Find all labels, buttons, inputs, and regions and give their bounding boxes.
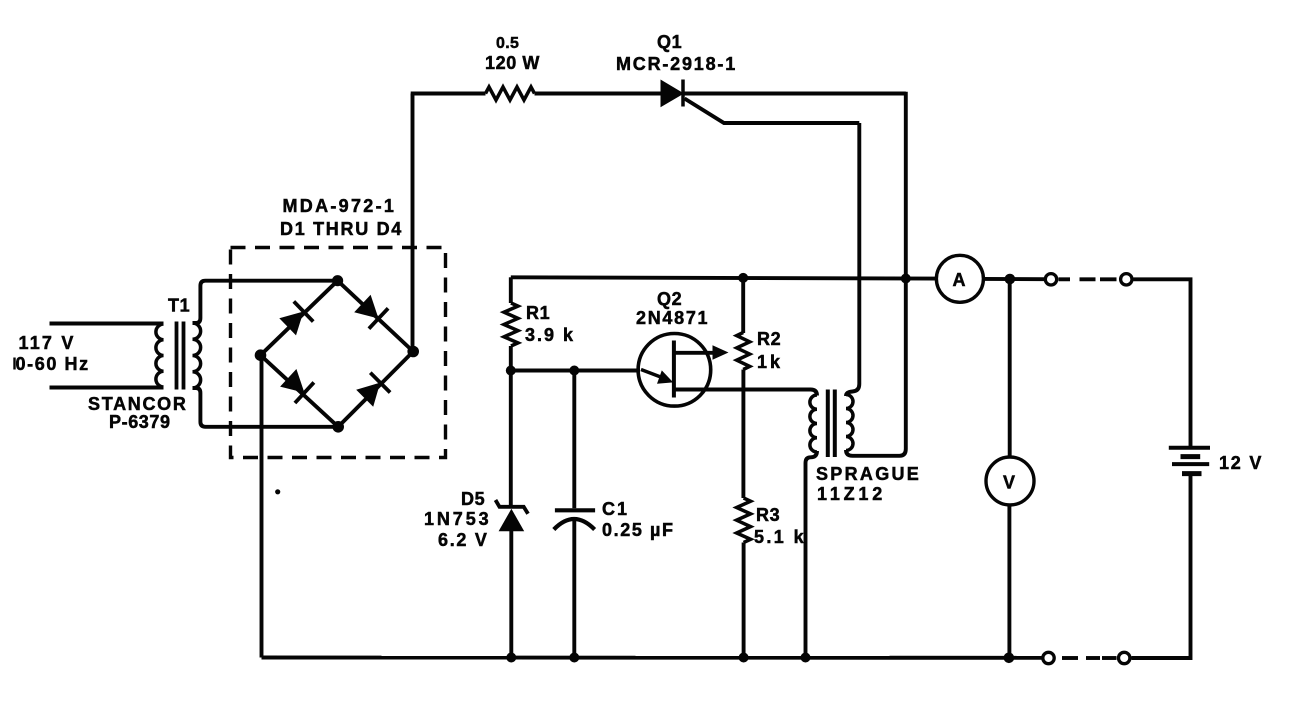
node: meter rail / R2 junction: [738, 273, 748, 283]
wire: meter rail from ammeter to + terminal: [983, 277, 1044, 281]
resistor R3 5.1k: [737, 498, 751, 543]
wire: bridge leg left-bottom: [261, 355, 339, 427]
wire: pulse transformer primary bottom lead: [806, 451, 818, 658]
capacitor C1 curved bottom plate: [554, 519, 595, 530]
wire: top rail right segment: [683, 92, 906, 96]
diode D4 (bottom-to-right leg): [356, 373, 390, 407]
wire: top rail left segment: [411, 92, 486, 96]
wire: C1 lower lead: [572, 521, 576, 658]
wire: R1 bottom to node: [509, 346, 513, 372]
svg-text:R3: R3: [756, 505, 780, 525]
svg-text:1N753: 1N753: [424, 509, 492, 529]
pulse transformer primary winding: [810, 395, 817, 452]
wire: C1 upper lead: [572, 371, 576, 509]
stray ink dot: [275, 489, 280, 494]
pulse transformer secondary winding: [846, 395, 853, 451]
svg-text:SPRAGUE: SPRAGUE: [816, 464, 921, 484]
node: C1 top junction: [569, 366, 579, 376]
diode D3 (left-to-bottom leg): [280, 369, 314, 403]
svg-text:120 W: 120 W: [485, 53, 540, 73]
wire: voltmeter vertical top: [1008, 279, 1012, 458]
node: D5 bottom junction: [506, 653, 516, 663]
svg-text:5.1 k: 5.1 k: [754, 527, 806, 547]
node: bridge bottom junction: [332, 421, 344, 433]
wire: battery - lead down and left to bottom rail: [1132, 476, 1191, 658]
wire: dashes to battery +: [1059, 277, 1071, 281]
node: R3 bottom junction: [739, 653, 749, 663]
wire: bottom rail: [262, 656, 1042, 660]
Q2 base bar: [672, 341, 676, 398]
wire: bridge leg top-right: [338, 281, 414, 352]
node: bridge top junction: [332, 275, 343, 286]
transformer T1 primary winding: [156, 324, 164, 387]
wire: battery + lead: [1134, 279, 1191, 446]
wire: bridge left node down to bottom rail: [260, 355, 264, 657]
svg-text:C1: C1: [602, 499, 629, 519]
node: bridge right junction: [407, 346, 419, 358]
svg-text:D5: D5: [461, 489, 485, 509]
svg-text:STANCOR: STANCOR: [88, 394, 188, 414]
node: bridge left junction: [255, 349, 267, 361]
terminal: - output circle: [1043, 652, 1054, 663]
wire: R2 bottom to R3 top: [741, 370, 745, 499]
wire: secondary bottom lead down and right to bridge bottom node: [193, 388, 339, 427]
Q2 base2 lead with arrow to R2 wiper: [676, 345, 729, 360]
potentiometer R2 1k: [737, 333, 750, 370]
svg-text:Q1: Q1: [657, 32, 682, 52]
svg-text:P-6379: P-6379: [109, 412, 171, 432]
wire: top rail middle segment: [535, 92, 662, 96]
svg-text:6.2 V: 6.2 V: [438, 530, 489, 550]
svg-text:0.25 µF: 0.25 µF: [602, 520, 675, 540]
transformer T1 secondary winding: [193, 323, 201, 388]
wire: D5 lower lead: [509, 530, 513, 658]
wire: primary bottom lead 117V input: [50, 386, 164, 390]
Q2 base1 lead to pulse transformer primary: [676, 390, 818, 396]
wire: bottom dashes: [1102, 656, 1117, 660]
wire: R2 top lead: [741, 278, 745, 333]
zener D5 cathode bar with bent tips: [496, 500, 529, 514]
svg-text:0.5: 0.5: [496, 35, 519, 52]
svg-text:MDA-972-1: MDA-972-1: [283, 196, 397, 216]
terminal: battery + circle: [1121, 274, 1132, 285]
node: pulse transformer primary bottom junction: [801, 653, 811, 663]
battery 12V plates: [1169, 448, 1210, 474]
svg-text:V: V: [1003, 473, 1016, 493]
terminal: battery - circle: [1119, 652, 1130, 663]
node: R1 / D5 / emitter junction: [506, 366, 516, 376]
voltmeter V: [986, 457, 1034, 505]
svg-text:D1 THRU D4: D1 THRU D4: [280, 219, 403, 239]
svg-text:R2: R2: [757, 329, 781, 349]
diode D2 (top-to-right leg): [354, 295, 388, 329]
zener D5 triangle: [499, 509, 525, 532]
wire: SCR gate lead diagonal then horizontal: [685, 99, 860, 124]
SCR Q1 anode triangle: [661, 80, 685, 108]
SCR Q1 cathode bar: [681, 80, 685, 107]
svg-text:12 V: 12 V: [1219, 453, 1263, 473]
wire: bridge right node up to top rail: [411, 94, 415, 352]
wire: emitter horizontal to Q2: [511, 369, 640, 373]
transformer T1 core: [175, 322, 179, 390]
svg-text:T1: T1: [168, 296, 190, 316]
pulse transformer core: [826, 390, 830, 458]
wire: bridge leg bottom-right: [338, 352, 413, 427]
node: voltmeter bottom junction: [1004, 653, 1015, 664]
wire: R3 bottom lead: [742, 543, 746, 658]
ammeter A: [936, 255, 983, 302]
wire: gate vertical down to pulse transformer secondary top: [846, 123, 859, 396]
wire: meter rail (horizontal, left part): [511, 277, 937, 278]
svg-text:11Z12: 11Z12: [817, 484, 886, 504]
terminal: + output circle: [1045, 274, 1056, 285]
wire: voltmeter vertical bottom: [1007, 504, 1011, 658]
svg-text:0-60 Hz: 0-60 Hz: [16, 354, 90, 374]
node: gate wire crossing meter rail (no dot) / secondary junction dot: [901, 274, 911, 284]
wire: right vertical from top rail down through ammeter rail to pulse transformer secondary bottom: [846, 92, 906, 456]
transistor Q2 circle (UJT 2N4871): [638, 334, 711, 407]
node: C1 bottom junction: [569, 653, 579, 663]
capacitor C1 top plate: [555, 508, 595, 512]
wire: D5 upper lead: [509, 371, 513, 507]
svg-text:117 V: 117 V: [19, 333, 76, 353]
resistor R1 vertical lead: [509, 277, 513, 303]
diode D1 (left-to-top leg): [279, 301, 313, 335]
dashed box MDA-972-1 bridge assembly: [231, 248, 446, 458]
svg-text:MCR-2918-1: MCR-2918-1: [616, 54, 737, 74]
svg-text:2N4871: 2N4871: [636, 308, 709, 328]
wire: bridge leg left-top: [261, 281, 338, 356]
svg-text:A: A: [953, 270, 967, 290]
resistor 0.5 ohm 120 W: [486, 87, 535, 100]
svg-text:3.9 k: 3.9 k: [525, 325, 575, 345]
svg-text:1 k: 1 k: [757, 352, 781, 372]
wire: primary top lead 117V input: [50, 322, 164, 326]
node: voltmeter top junction: [1005, 274, 1016, 285]
wire: secondary top lead up and right to bridge top node: [193, 281, 338, 323]
svg-text:Q2: Q2: [657, 289, 682, 309]
resistor R1 3.9k: [504, 303, 518, 346]
svg-text:R1: R1: [526, 303, 550, 323]
Q2 emitter arrow: [641, 370, 673, 384]
